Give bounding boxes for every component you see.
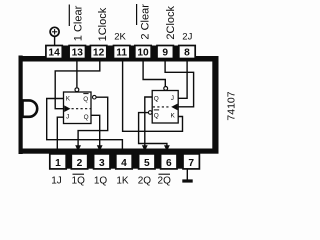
svg-text:74107: 74107 xyxy=(225,91,237,120)
wire 1Clock: pin12 left and down to FF1 clock xyxy=(55,58,100,109)
wire 2Q-bar: FF2 Qbar bubble left, down, right, down arrow to pin6 xyxy=(139,113,167,147)
pin 8 box xyxy=(179,46,195,59)
pin 4 box xyxy=(116,154,132,169)
wire 1Q-bar: FF1 Qbar bubble right, down, left, down arrow to pin2 xyxy=(78,97,108,146)
svg-text:14: 14 xyxy=(48,48,60,59)
FF2 clock triangle xyxy=(171,104,177,111)
pin 14 box xyxy=(46,46,62,59)
svg-text:1Q: 1Q xyxy=(94,175,108,186)
label 1 Clear (vertical, overbar) xyxy=(69,5,84,42)
pin 9 box xyxy=(157,46,173,59)
wire 2Clock: pin9 down, right, down, left into FF2 clock xyxy=(165,58,194,107)
svg-text:13: 13 xyxy=(72,48,84,59)
pin 11 box xyxy=(114,46,130,59)
pin 2 box xyxy=(71,154,87,169)
label 2Q-bar xyxy=(158,174,172,186)
svg-text:12: 12 xyxy=(93,48,105,59)
svg-text:K: K xyxy=(66,96,71,103)
notch semicircle on left edge xyxy=(23,100,38,116)
flip-flop FF2 box xyxy=(152,91,178,124)
svg-text:2Clock: 2Clock xyxy=(165,5,177,39)
svg-text:5: 5 xyxy=(144,158,150,169)
pin 10 box xyxy=(135,46,151,59)
output bubble FF1 Qbar xyxy=(93,95,97,99)
svg-text:1Q: 1Q xyxy=(72,175,86,186)
svg-text:2Q: 2Q xyxy=(138,175,152,186)
svg-text:1: 1 xyxy=(55,158,61,169)
pin 13 box xyxy=(69,46,85,59)
wire 1Q: FF1 Q right, down arrow to pin3 xyxy=(91,115,100,146)
wire 2J: pin8 down, left into FF2 J input xyxy=(178,58,187,98)
flip-flop FF1 box xyxy=(64,92,92,124)
bottom pin strip black fill xyxy=(50,150,199,169)
clear bubble FF2 xyxy=(164,87,168,91)
wire 2Q: FF2 Q left, down arrow to pin5 xyxy=(145,97,152,146)
label 2 Clear (vertical, overbar) xyxy=(137,4,152,40)
FF2 dashed clock line xyxy=(153,106,171,108)
wire 1Clear: pin13 down to FF1 clear bubble xyxy=(76,58,78,87)
FF1 clock triangle xyxy=(64,105,70,112)
svg-text:K: K xyxy=(171,112,176,119)
svg-text:11: 11 xyxy=(116,48,127,59)
svg-text:1K: 1K xyxy=(116,175,129,186)
arrowhead to pin6 xyxy=(164,145,170,151)
pin 6 box xyxy=(161,154,177,169)
svg-text:2: 2 xyxy=(77,158,83,169)
arrowhead to pin2 xyxy=(75,145,81,151)
clear bubble FF1 xyxy=(75,88,79,92)
svg-text:7: 7 xyxy=(188,158,194,169)
svg-text:2K: 2K xyxy=(114,32,126,43)
svg-text:Q: Q xyxy=(84,114,89,121)
pin 7 box xyxy=(183,154,199,169)
IC body bottom edge xyxy=(19,149,219,154)
svg-text:J: J xyxy=(66,114,69,121)
Vcc terminal circle with plus xyxy=(50,27,59,45)
svg-text:8: 8 xyxy=(184,48,190,59)
arrowhead to pin3 xyxy=(97,145,103,151)
pin 3 box xyxy=(94,154,110,169)
label 1Q-bar xyxy=(72,174,86,186)
wire 1J: pin1 up, right into FF1 J input xyxy=(57,117,63,154)
wire 2K: pin11 down, right, up into FF2 K input xyxy=(123,58,183,131)
svg-text:3: 3 xyxy=(99,158,105,169)
output bubble FF2 Qbar xyxy=(148,111,152,115)
svg-text:Q: Q xyxy=(154,112,159,119)
svg-text:J: J xyxy=(171,95,174,102)
top pin strip black fill xyxy=(46,46,195,62)
pin 1 box xyxy=(50,154,66,169)
svg-text:10: 10 xyxy=(137,48,149,59)
wire 2Clear: pin10 down, right, down to FF2 clear bubble xyxy=(143,58,165,86)
FF1 dashed clock line xyxy=(72,108,91,110)
svg-text:6: 6 xyxy=(166,158,172,169)
svg-text:1Clock: 1Clock xyxy=(97,7,109,41)
ground symbol below pin 7 xyxy=(182,169,192,183)
svg-text:2 Clear: 2 Clear xyxy=(140,4,152,40)
IC body left edge xyxy=(19,56,23,155)
svg-text:4: 4 xyxy=(121,158,127,169)
svg-text:1 Clear: 1 Clear xyxy=(73,5,85,41)
svg-text:Q: Q xyxy=(83,96,88,103)
IC body top edge xyxy=(19,56,219,62)
wire 1K: FF1 K input left, down, right, down to pin4 xyxy=(47,99,123,155)
pin 12 box xyxy=(90,46,106,59)
svg-text:1J: 1J xyxy=(51,175,62,186)
pin 5 box xyxy=(139,154,155,169)
arrowhead to pin5 xyxy=(142,145,148,151)
svg-text:Q: Q xyxy=(154,95,159,102)
svg-text:2J: 2J xyxy=(182,31,192,42)
svg-text:9: 9 xyxy=(162,48,168,59)
svg-text:2Q: 2Q xyxy=(158,175,172,186)
IC body right edge xyxy=(212,56,218,152)
